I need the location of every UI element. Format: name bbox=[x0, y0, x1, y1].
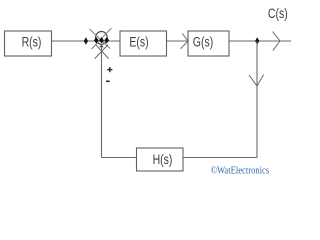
summing junction X cross bbox=[90, 28, 112, 49]
svg-text:H(s): H(s) bbox=[153, 152, 173, 168]
wire feedback bottom right segment bbox=[183, 157, 257, 159]
block R(s) bbox=[5, 31, 52, 56]
diamond arrowhead on R(s) wire bbox=[84, 37, 88, 45]
output open arrowhead bbox=[273, 32, 280, 51]
wire feedback up to summing junction bbox=[101, 44, 103, 158]
node: output takeoff junction dot bbox=[255, 37, 259, 45]
summing junction circle U1 bbox=[96, 32, 108, 45]
open arrowhead into G(s) bbox=[181, 33, 188, 48]
wire output down to feedback bbox=[256, 41, 258, 158]
svg-text:G(s): G(s) bbox=[193, 34, 213, 50]
block H(s) bbox=[137, 148, 184, 171]
svg-text:©WatElectronics: ©WatElectronics bbox=[211, 165, 270, 177]
block E(s) bbox=[120, 31, 167, 56]
wire R(s) to summing junction bbox=[52, 40, 121, 42]
wire E(s) to G(s) bbox=[167, 40, 189, 42]
svg-text:R(s): R(s) bbox=[22, 34, 42, 50]
plus sign label bbox=[107, 67, 112, 72]
svg-text:E(s): E(s) bbox=[129, 34, 148, 50]
wire G(s) to output bbox=[229, 40, 291, 42]
feedback up-arrowhead into junction bbox=[99, 44, 103, 47]
down open arrowhead on feedback wire bbox=[249, 75, 264, 87]
block G(s) bbox=[188, 31, 229, 56]
svg-text:C(s): C(s) bbox=[268, 5, 288, 21]
minus sign label bbox=[106, 80, 110, 82]
diamond arrowheads at summing junction bbox=[94, 37, 109, 43]
wire feedback bottom left segment bbox=[102, 157, 137, 159]
feedback arrow X arms below junction bbox=[95, 44, 109, 58]
